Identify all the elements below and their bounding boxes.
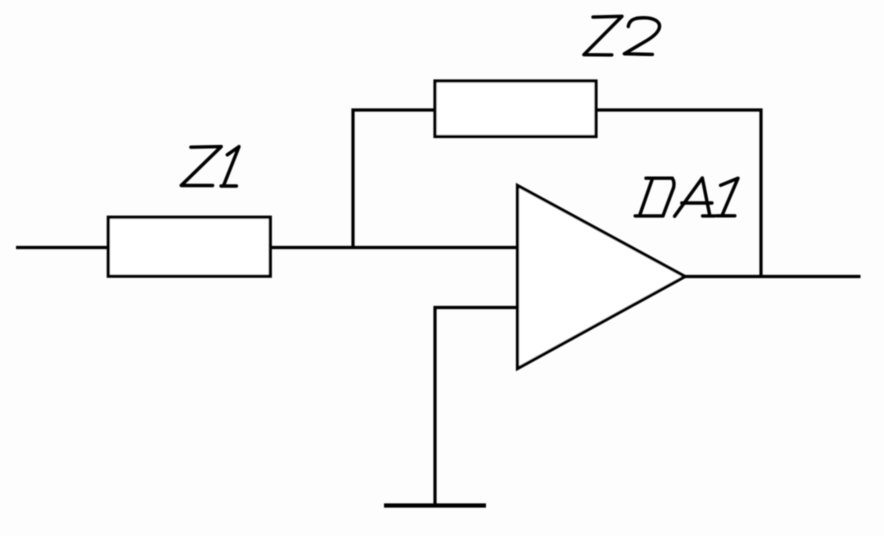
wire non-inverting input to ground branch (435, 308, 518, 504)
wire feedback up from node (353, 110, 436, 249)
ground (384, 503, 486, 507)
wire input left (16, 246, 110, 249)
resistor Z1 (108, 217, 270, 276)
wire Z2 to feedback corner and down (596, 110, 761, 277)
label Z2 (584, 16, 660, 55)
wire output (685, 275, 861, 278)
label Z1 (181, 147, 239, 186)
resistor Z2 (435, 81, 596, 137)
op-amp DA1 (518, 186, 686, 369)
wire Z1 to op-amp inverting input (270, 246, 518, 249)
label DA1 (635, 178, 738, 216)
